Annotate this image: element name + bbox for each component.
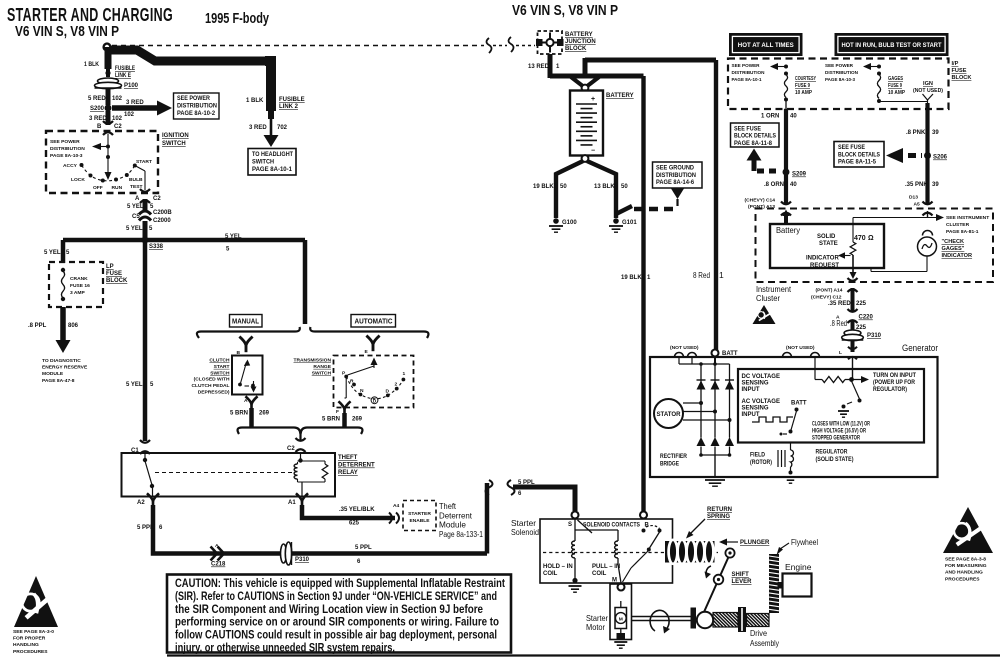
svg-text:225: 225 [856, 301, 867, 307]
svg-text:FUSE: FUSE [106, 271, 122, 277]
svg-text:SHIFT: SHIFT [732, 572, 750, 578]
svg-text:C2: C2 [287, 446, 295, 452]
svg-text:B: B [97, 124, 102, 130]
svg-text:PAGE 8A-81-1: PAGE 8A-81-1 [946, 229, 979, 235]
svg-text:(SIR). Refer to CAUTIONS in S: (SIR). Refer to CAUTIONS in Section 9J u… [175, 589, 497, 603]
svg-text:the SIR Component and Wiring L: the SIR Component and Wiring Location vi… [175, 602, 483, 616]
svg-text:PAGE 8A-10-3: PAGE 8A-10-3 [825, 77, 855, 83]
svg-text:PAGE 8A-14-6: PAGE 8A-14-6 [656, 180, 695, 186]
svg-text:SEE INSTRUMENT: SEE INSTRUMENT [946, 215, 989, 221]
svg-text:(CLOSED WITH: (CLOSED WITH [194, 377, 230, 383]
svg-text:START: START [136, 159, 152, 165]
svg-text:50: 50 [621, 184, 628, 190]
svg-text:LOCK: LOCK [71, 177, 85, 183]
svg-text:Cluster: Cluster [756, 293, 780, 303]
svg-text:SEE FUSE: SEE FUSE [838, 145, 865, 151]
svg-text:LINK 2: LINK 2 [279, 104, 299, 110]
svg-text:A2: A2 [137, 500, 145, 506]
svg-text:P310: P310 [295, 557, 310, 563]
svg-text:FOR PROPER: FOR PROPER [13, 636, 46, 642]
svg-text:269: 269 [259, 411, 270, 417]
svg-text:C2000: C2000 [153, 218, 171, 224]
svg-text:PAGE 8A-11-8: PAGE 8A-11-8 [734, 141, 773, 147]
svg-text:102: 102 [112, 116, 123, 122]
svg-text:SEE POWER: SEE POWER [732, 63, 760, 69]
svg-text:IGN: IGN [923, 81, 933, 87]
svg-text:performing service on or aroun: performing service on or around SIR comp… [175, 615, 499, 629]
svg-text:SWITCH: SWITCH [162, 141, 186, 147]
svg-text:RECTIFIER: RECTIFIER [660, 454, 688, 460]
svg-text:BATT: BATT [722, 351, 738, 357]
svg-text:Page 8a-133-1: Page 8a-133-1 [439, 529, 483, 539]
svg-text:(POWER UP FOR: (POWER UP FOR [873, 380, 916, 386]
svg-text:SWITCH: SWITCH [312, 370, 332, 376]
svg-text:19 BLK: 19 BLK [621, 275, 642, 281]
svg-text:FUSE 9: FUSE 9 [888, 83, 902, 89]
svg-text:BATTERY: BATTERY [565, 32, 593, 38]
svg-text:AC VOLTAGE: AC VOLTAGE [742, 399, 780, 405]
svg-text:C220: C220 [859, 315, 874, 321]
svg-text:BULB: BULB [129, 177, 143, 183]
svg-text:DISTRIBUTION: DISTRIBUTION [656, 173, 696, 179]
svg-text:START: START [214, 364, 230, 370]
svg-text:SEE FUSE: SEE FUSE [734, 127, 761, 133]
svg-text:.8 PPL: .8 PPL [28, 323, 47, 329]
svg-text:injury, or otherwise unneeded: injury, or otherwise unneeded SIR system… [175, 641, 395, 655]
svg-text:CLUTCH: CLUTCH [209, 358, 230, 364]
svg-text:ENERGY RESERVE: ENERGY RESERVE [42, 365, 88, 371]
svg-text:.35 YEL/BLK: .35 YEL/BLK [339, 507, 375, 513]
svg-text:STATE: STATE [819, 241, 838, 247]
svg-text:THEFT: THEFT [338, 455, 358, 461]
svg-text:D: D [386, 389, 390, 395]
svg-text:FOR MEASURING: FOR MEASURING [945, 563, 987, 569]
svg-text:(NOT USED): (NOT USED) [670, 345, 699, 351]
svg-text:39: 39 [932, 182, 939, 188]
svg-text:PAGE 8A-11-5: PAGE 8A-11-5 [838, 160, 877, 166]
svg-text:CLUTCH PEDAL: CLUTCH PEDAL [191, 383, 229, 389]
svg-text:CLOSES WITH LOW (11.2V) OR: CLOSES WITH LOW (11.2V) OR [812, 422, 870, 428]
svg-text:50: 50 [560, 184, 567, 190]
svg-text:L: L [839, 350, 842, 356]
svg-text:SPRING: SPRING [707, 514, 730, 520]
svg-text:.8 Red: .8 Red [830, 318, 847, 328]
svg-text:SEE POWER: SEE POWER [50, 139, 80, 145]
svg-text:5 YEL: 5 YEL [127, 204, 144, 210]
svg-text:FIELD: FIELD [750, 453, 766, 459]
svg-text:STOPPED GENERATOR: STOPPED GENERATOR [812, 436, 860, 442]
svg-text:follow CAUTIONS could result i: follow CAUTIONS could result in possible… [175, 628, 497, 642]
svg-text:FUSE 9: FUSE 9 [795, 83, 810, 89]
svg-text:DISTRIBUTION: DISTRIBUTION [50, 146, 85, 152]
svg-text:GAGES: GAGES [888, 76, 903, 82]
svg-text:SOLENOID CONTACTS: SOLENOID CONTACTS [583, 523, 640, 529]
svg-text:(CHEVY) C14: (CHEVY) C14 [745, 198, 776, 204]
svg-text:BLOCK: BLOCK [106, 278, 128, 284]
svg-text:RELAY: RELAY [338, 470, 358, 476]
svg-text:40: 40 [790, 182, 797, 188]
svg-text:TO HEADLIGHT: TO HEADLIGHT [252, 152, 293, 158]
svg-text:DC VOLTAGE: DC VOLTAGE [742, 374, 780, 380]
svg-text:COIL: COIL [592, 571, 607, 577]
svg-text:.8 ORN: .8 ORN [764, 182, 784, 188]
svg-text:102: 102 [112, 96, 123, 102]
svg-text:1 BLK: 1 BLK [84, 62, 100, 68]
svg-text:5 YEL: 5 YEL [126, 226, 143, 232]
svg-text:FUSIBLE: FUSIBLE [279, 97, 305, 103]
svg-text:5 BRN: 5 BRN [230, 411, 248, 417]
svg-text:BATT: BATT [791, 401, 807, 407]
svg-text:PLUNGER: PLUNGER [740, 540, 770, 546]
svg-text:OFF: OFF [93, 185, 103, 191]
svg-text:SEE PAGE 8A-3-8: SEE PAGE 8A-3-8 [945, 557, 986, 563]
svg-text:CLUSTER: CLUSTER [946, 222, 970, 228]
svg-text:SEE POWER: SEE POWER [825, 63, 853, 69]
svg-text:1: 1 [403, 371, 406, 377]
svg-text:RUN: RUN [112, 185, 123, 191]
svg-text:FUSIBLE: FUSIBLE [115, 66, 135, 72]
svg-text:.35 PNK: .35 PNK [905, 182, 928, 188]
svg-text:SENSING: SENSING [742, 381, 769, 387]
svg-text:REQUEST: REQUEST [810, 263, 839, 269]
svg-text:PROCEDURES: PROCEDURES [945, 576, 980, 582]
svg-text:A: A [135, 196, 140, 202]
svg-text:INDICATOR: INDICATOR [942, 253, 973, 259]
svg-text:(CHEVY) C12: (CHEVY) C12 [811, 295, 842, 301]
svg-text:Motor: Motor [586, 622, 605, 632]
svg-text:(ROTOR): (ROTOR) [750, 460, 772, 466]
svg-text:Battery: Battery [776, 225, 801, 235]
svg-text:S200: S200 [90, 106, 105, 112]
svg-text:5 PPL: 5 PPL [137, 525, 154, 531]
svg-text:3 AMP: 3 AMP [70, 290, 86, 296]
svg-text:(NOT USED): (NOT USED) [786, 345, 815, 351]
svg-text:−: − [591, 148, 595, 155]
svg-text:SEE GROUND: SEE GROUND [656, 166, 695, 172]
svg-text:JUNCTION: JUNCTION [565, 39, 596, 45]
svg-text:39: 39 [932, 130, 939, 136]
svg-text:ACCY: ACCY [63, 163, 78, 169]
svg-text:A1: A1 [288, 500, 296, 506]
svg-text:RANGE: RANGE [313, 364, 331, 370]
svg-text:(PONT) A14: (PONT) A14 [816, 288, 843, 294]
svg-text:ENABLE: ENABLE [409, 518, 430, 524]
svg-text:PAGE 8A-10-1: PAGE 8A-10-1 [252, 167, 293, 173]
svg-text:B: B [645, 523, 650, 529]
svg-text:I/P: I/P [952, 61, 959, 67]
svg-text:Assembly: Assembly [750, 638, 780, 648]
svg-text:PAGE 8A-10-3: PAGE 8A-10-3 [50, 153, 83, 159]
svg-text:AUTOMATIC: AUTOMATIC [355, 319, 393, 326]
svg-text:S: S [568, 522, 572, 528]
svg-text:5 YEL: 5 YEL [44, 250, 61, 256]
svg-text:PROCEDURES: PROCEDURES [13, 649, 48, 655]
svg-text:R: R [350, 379, 354, 385]
svg-text:C200B: C200B [153, 210, 172, 216]
svg-text:DETERRENT: DETERRENT [338, 463, 375, 469]
svg-text:LEVER: LEVER [732, 579, 753, 585]
svg-text:IGNITION: IGNITION [162, 133, 189, 139]
svg-text:SOLID: SOLID [817, 234, 836, 240]
svg-text:S338: S338 [149, 244, 164, 250]
svg-text:G100: G100 [562, 220, 577, 226]
svg-text:BLOCK DETAILS: BLOCK DETAILS [734, 134, 776, 140]
svg-text:SEE PAGE 8A-3-0: SEE PAGE 8A-3-0 [13, 629, 54, 635]
svg-text:.35 RED: .35 RED [828, 301, 851, 307]
svg-text:PULL – IN: PULL – IN [592, 564, 620, 570]
svg-text:SENSING: SENSING [742, 406, 769, 412]
svg-text:10 AMP: 10 AMP [795, 90, 812, 96]
svg-text:M: M [612, 578, 617, 584]
svg-text:GAGES": GAGES" [942, 246, 965, 252]
svg-text:19 BLK: 19 BLK [533, 184, 554, 190]
svg-text:SWITCH: SWITCH [252, 160, 274, 166]
svg-text:Solenoid: Solenoid [511, 527, 539, 537]
svg-text:STARTER AND CHARGING: STARTER AND CHARGING [7, 4, 173, 25]
svg-text:470: 470 [854, 235, 866, 242]
svg-text:TRANSMISSION: TRANSMISSION [294, 358, 332, 364]
svg-text:BLOCK: BLOCK [565, 46, 587, 52]
svg-text:STARTER: STARTER [408, 511, 431, 517]
svg-text:P100: P100 [124, 83, 139, 89]
svg-text:5 RED: 5 RED [88, 96, 106, 102]
svg-text:Drive: Drive [750, 628, 767, 638]
svg-text:INDICATOR: INDICATOR [806, 256, 839, 262]
svg-text:S206: S206 [933, 155, 948, 161]
svg-text:D13: D13 [909, 195, 918, 201]
svg-text:CAUTION: This vehicle is eq: CAUTION: This vehicle is equipped with S… [175, 576, 505, 590]
svg-text:Generator: Generator [902, 343, 938, 354]
svg-text:A4: A4 [393, 503, 400, 509]
svg-text:8 Red: 8 Red [693, 270, 710, 280]
svg-text:13 RED: 13 RED [528, 64, 550, 70]
svg-text:(SOLID STATE): (SOLID STATE) [816, 457, 854, 463]
svg-text:D: D [373, 399, 377, 405]
svg-text:V6 VIN S, V8 VIN P: V6 VIN S, V8 VIN P [15, 24, 119, 40]
svg-text:P310: P310 [867, 333, 882, 339]
svg-text:RETURN: RETURN [707, 507, 732, 513]
svg-text:CRANK: CRANK [70, 276, 88, 282]
svg-text:COIL: COIL [543, 571, 558, 577]
svg-text:HOLD – IN: HOLD – IN [543, 564, 573, 570]
svg-text:MANUAL: MANUAL [232, 319, 260, 326]
svg-text:625: 625 [349, 521, 360, 527]
svg-text:A5: A5 [914, 202, 921, 208]
svg-text:LINK E: LINK E [115, 73, 131, 79]
svg-text:C2: C2 [153, 196, 161, 202]
svg-text:"CHECK: "CHECK [942, 239, 965, 245]
svg-text:PAGE 8A-10-1: PAGE 8A-10-1 [732, 77, 762, 83]
svg-text:INPUT: INPUT [742, 412, 760, 418]
svg-text:TURN ON INPUT: TURN ON INPUT [873, 373, 916, 379]
svg-text:1 ORN: 1 ORN [761, 114, 779, 120]
svg-text:DEPRESSED): DEPRESSED) [198, 389, 230, 395]
svg-text:Engine: Engine [785, 562, 812, 572]
svg-text:HOT AT ALL TIMES: HOT AT ALL TIMES [738, 42, 795, 49]
svg-text:C218: C218 [211, 562, 226, 568]
svg-text:806: 806 [68, 323, 79, 329]
svg-text:STATOR: STATOR [657, 412, 682, 418]
svg-text:BRIDGE: BRIDGE [660, 462, 679, 468]
svg-text:FUSE: FUSE [952, 68, 967, 74]
svg-text:102: 102 [124, 112, 135, 118]
svg-text:5 BRN: 5 BRN [322, 417, 340, 423]
svg-text:N: N [360, 388, 364, 394]
svg-text:HIGH VOLTAGE (16.5V) OR: HIGH VOLTAGE (16.5V) OR [812, 429, 866, 435]
svg-text:G101: G101 [622, 220, 637, 226]
svg-text:M: M [619, 617, 623, 623]
svg-text:LP: LP [106, 264, 114, 270]
svg-text:5 YEL: 5 YEL [126, 382, 143, 388]
svg-text:5 YEL: 5 YEL [225, 234, 242, 240]
svg-text:S209: S209 [792, 172, 807, 178]
svg-text:10 AMP: 10 AMP [888, 90, 905, 96]
svg-text:MODULE: MODULE [42, 371, 64, 377]
svg-text:PAGE 8A-10-2: PAGE 8A-10-2 [177, 111, 216, 117]
svg-text:DISTRIBUTION: DISTRIBUTION [177, 104, 217, 110]
svg-text:1: 1 [719, 270, 724, 280]
svg-text:1995 F-body: 1995 F-body [205, 10, 269, 27]
svg-text:Flywheel: Flywheel [791, 537, 818, 547]
svg-text:13 BLK: 13 BLK [594, 184, 615, 190]
svg-text:HOT IN RUN, BULB TEST OR START: HOT IN RUN, BULB TEST OR START [842, 42, 942, 49]
svg-text:COURTESY: COURTESY [795, 76, 816, 82]
svg-text:PAGE 8A-47-8: PAGE 8A-47-8 [42, 378, 75, 384]
svg-text:1 BLK: 1 BLK [246, 98, 264, 104]
svg-text:DISTRIBUTION: DISTRIBUTION [825, 70, 858, 76]
svg-text:V6 VIN S, V8 VIN P: V6 VIN S, V8 VIN P [512, 3, 618, 19]
svg-text:3 RED: 3 RED [126, 100, 144, 106]
svg-text:DISTRIBUTION: DISTRIBUTION [732, 70, 765, 76]
svg-text:HANDLING: HANDLING [13, 642, 39, 648]
svg-text:269: 269 [352, 417, 363, 423]
svg-text:702: 702 [277, 125, 288, 131]
svg-text:REGULATOR): REGULATOR) [873, 387, 907, 393]
svg-text:.8 PNK: .8 PNK [906, 130, 926, 136]
svg-text:(NOT USED): (NOT USED) [913, 88, 943, 94]
svg-text:2: 2 [395, 382, 398, 388]
svg-text:F: F [336, 409, 339, 415]
svg-text:3 RED: 3 RED [249, 125, 267, 131]
svg-text:+: + [591, 96, 595, 103]
svg-text:5 PPL: 5 PPL [355, 545, 372, 551]
svg-text:Ω: Ω [868, 235, 874, 242]
svg-text:TO DIAGNOSTIC: TO DIAGNOSTIC [42, 358, 81, 364]
svg-text:SEE POWER: SEE POWER [177, 96, 211, 102]
svg-text:BLOCK DETAILS: BLOCK DETAILS [838, 152, 880, 158]
svg-text:AND HANDLING: AND HANDLING [945, 570, 983, 576]
svg-text:BLOCK: BLOCK [952, 75, 972, 81]
svg-text:40: 40 [790, 114, 797, 120]
svg-text:SWITCH: SWITCH [210, 370, 230, 376]
svg-text:C2: C2 [114, 124, 122, 130]
svg-text:BATTERY: BATTERY [606, 93, 634, 99]
svg-text:FUSE 16: FUSE 16 [70, 283, 90, 289]
svg-text:REGULATOR: REGULATOR [816, 450, 849, 456]
svg-text:INPUT: INPUT [742, 387, 760, 393]
